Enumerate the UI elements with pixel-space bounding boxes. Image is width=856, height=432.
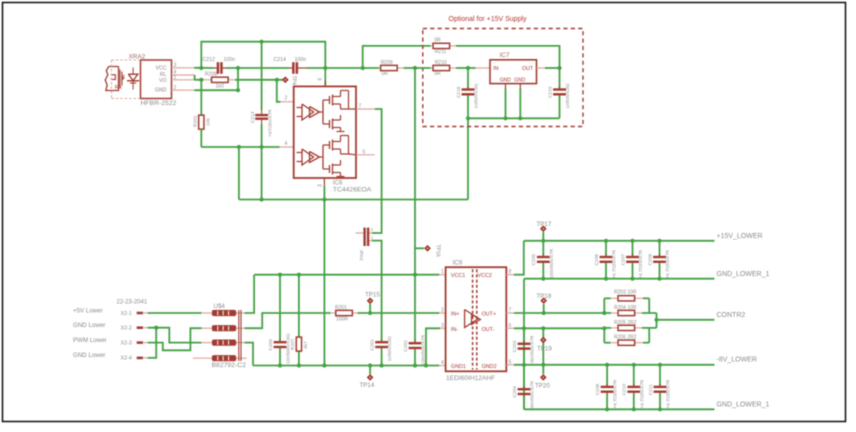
svg-text:C208: C208 <box>595 384 601 396</box>
svg-text:TP16: TP16 <box>435 245 441 258</box>
svg-text:R209: R209 <box>381 60 393 66</box>
node OUT- dots <box>522 326 607 330</box>
XRA2 pin labels VCC RL VO GND <box>155 66 167 94</box>
choke U$4 winding 2 <box>202 325 245 331</box>
svg-text:+4.7/25V/X7R: +4.7/25V/X7R <box>639 379 644 408</box>
svg-text:2: 2 <box>441 308 444 314</box>
choke U$4 name <box>214 303 226 310</box>
svg-text:TP19: TP19 <box>537 346 552 353</box>
photodiode symbol <box>127 68 139 90</box>
svg-text:3: 3 <box>441 323 444 329</box>
testpoint TP19 <box>540 337 547 344</box>
wire GND_LOWER_1 bottom rail <box>524 408 715 410</box>
resistor R204 <box>618 310 635 315</box>
wire GND to IC6 pin4 <box>201 146 279 148</box>
svg-text:-8V_LOWER: -8V_LOWER <box>717 357 757 364</box>
svg-text:4k7: 4k7 <box>303 341 309 349</box>
svg-text:TP20: TP20 <box>535 383 550 390</box>
connector pin X2-2 <box>137 326 148 329</box>
wire R203 green bits <box>604 297 649 299</box>
node C213 top tap dot <box>260 40 264 44</box>
wire X2-3 to choke w2 <box>148 328 202 350</box>
capacitor C211 <box>648 365 671 410</box>
svg-text:TP14: TP14 <box>360 382 375 389</box>
node C202 bottom dot <box>413 363 417 367</box>
capacitor C213 top lead <box>261 42 263 114</box>
node bottom GND rail dots <box>605 407 662 411</box>
TP16 label <box>435 245 441 258</box>
wire optional supply GND rail <box>468 117 560 119</box>
wire X2-2 to choke w3 <box>148 328 202 343</box>
svg-text:1EDI60IH12AHF: 1EDI60IH12AHF <box>446 375 495 382</box>
wire choke w2 to PWM row <box>245 313 331 328</box>
resistor R204 label <box>614 305 637 311</box>
jumper JPA2 label <box>358 250 364 261</box>
svg-text:C213: C213 <box>250 111 256 123</box>
svg-text:IC7: IC7 <box>500 52 510 59</box>
net label GND_LOWER_1 upper <box>717 271 770 278</box>
svg-text:+4.7/25V/X7R: +4.7/25V/X7R <box>666 379 671 408</box>
node C201 bottom dot <box>380 363 384 367</box>
jumper JPA2 pin leads <box>356 233 373 241</box>
wire GND_LOWER_1 upper rail <box>524 278 715 280</box>
IC6 pin4 lead <box>280 146 294 148</box>
svg-text:+4.7/25V/X7R: +4.7/25V/X7R <box>612 249 617 278</box>
connector pin X2-4 <box>137 357 148 360</box>
TP17 label <box>537 221 552 228</box>
svg-text:4: 4 <box>285 141 288 147</box>
svg-text:Rx: Rx <box>115 85 122 91</box>
wire GND1 rail riser to optional box <box>467 118 469 199</box>
optional supply title <box>449 16 528 23</box>
node C213 bottom dot <box>260 145 264 149</box>
svg-text:1n/50V/C0G: 1n/50V/C0G <box>387 336 392 362</box>
testpoint TP18 stub <box>543 304 545 313</box>
connector pin X2-3 labels <box>73 337 132 347</box>
svg-text:C212: C212 <box>203 57 216 63</box>
svg-text:0R: 0R <box>434 71 441 77</box>
wire isolated GND vertical <box>523 279 525 410</box>
svg-text:C210: C210 <box>622 384 628 396</box>
svg-text:OUT+: OUT+ <box>482 312 497 318</box>
node IC6 GND bottom dot <box>322 363 326 367</box>
svg-text:C214: C214 <box>274 57 287 63</box>
voltage regulator IC7 body <box>490 60 537 84</box>
connector pin X2-3 <box>137 341 148 344</box>
testpoint TP4 <box>282 76 289 83</box>
svg-text:PWM Lower: PWM Lower <box>73 337 107 344</box>
svg-text:R210: R210 <box>435 60 447 66</box>
wire R209 to R210 <box>404 67 431 69</box>
svg-text:C205: C205 <box>531 254 537 266</box>
resistor R204 leads <box>611 312 643 314</box>
resistor R209 labels <box>381 60 393 77</box>
IC9 pin name labels <box>451 273 497 370</box>
svg-text:C207: C207 <box>620 254 626 266</box>
connector pin X2-1 <box>137 312 148 315</box>
wire +15V rail <box>524 240 715 242</box>
svg-text:R206 2R2: R206 2R2 <box>614 335 637 341</box>
IC6 pin7 number <box>359 104 362 110</box>
svg-text:C202: C202 <box>403 340 409 352</box>
svg-text:TC4426EOA: TC4426EOA <box>333 187 372 194</box>
svg-text:IC9: IC9 <box>453 260 463 267</box>
IC6 pin2 number <box>285 96 288 102</box>
Rx label <box>115 85 122 91</box>
svg-text:TP17: TP17 <box>537 221 552 228</box>
node primary GND dots <box>368 363 372 367</box>
IC9 pin8 lead <box>506 274 514 276</box>
svg-text:+4.7/25V/X7R: +4.7/25V/X7R <box>665 249 670 278</box>
svg-text:U$4: U$4 <box>214 303 226 310</box>
IC7 IN pin lead <box>476 67 491 69</box>
wire ladder right bus top <box>649 298 656 313</box>
wire X2-4 up to X2-2 <box>148 328 157 358</box>
node VO junction dot <box>199 78 203 82</box>
IC9 pin8 number <box>509 269 512 275</box>
wire VCC top detour <box>201 42 325 68</box>
resistor R209 lead left <box>379 67 382 69</box>
node top-wire corner dot <box>361 66 365 70</box>
net label CONTR2 <box>717 312 746 319</box>
node +5V rail dots <box>278 273 417 277</box>
resistor R210 labels <box>434 60 447 77</box>
node GND pin2 dot <box>236 88 240 92</box>
wire GND mid segment <box>227 67 290 69</box>
svg-text:2: 2 <box>285 96 288 102</box>
IC7 OUT pin lead <box>537 67 546 69</box>
node TP4 junction dot <box>275 78 279 82</box>
wire OUT+ to ladder <box>514 312 604 314</box>
wire ladder right bus bottom <box>649 328 656 343</box>
wire IN- tie to GND <box>426 328 440 365</box>
op-amp driver IC6 body <box>294 86 356 178</box>
jumper JPA2 <box>363 228 369 246</box>
svg-text:GND: GND <box>500 77 512 83</box>
capacitor C207 <box>620 241 643 279</box>
wire primary GND rail <box>253 365 439 367</box>
svg-text:1n/50V/C0G: 1n/50V/C0G <box>565 83 570 109</box>
svg-text:1: 1 <box>441 269 444 275</box>
IC9 pin7 out number <box>509 308 512 314</box>
testpoint TP18 <box>540 297 547 304</box>
IC9 pin3 lead <box>440 327 446 329</box>
resistor R205 label <box>614 320 637 326</box>
IC9 pin1 lead <box>439 274 445 276</box>
IC9 name label <box>453 260 463 267</box>
wire X2-1 to choke <box>148 312 202 314</box>
node ladder left dots <box>602 311 606 315</box>
IC9 pin6 out lead <box>506 327 514 329</box>
svg-text:10n/500V/C0G: 10n/500V/C0G <box>286 333 291 364</box>
IC9 pin7 out lead <box>506 312 514 314</box>
light arrow glyph <box>122 75 125 81</box>
IC6 pin3 number <box>318 184 324 187</box>
svg-text:VCC: VCC <box>156 66 167 72</box>
capacitor C215 <box>547 68 570 118</box>
svg-text:10k: 10k <box>206 118 212 126</box>
svg-text:R201: R201 <box>335 305 347 311</box>
svg-text:GND: GND <box>514 77 526 83</box>
choke U$4 winding 3 <box>202 340 245 346</box>
TP20 label <box>535 383 550 390</box>
svg-text:JPA2: JPA2 <box>358 250 364 261</box>
node CONTR2 dot <box>654 318 658 322</box>
node IC6 pin6 junction dot <box>323 66 327 70</box>
svg-text:VCC2: VCC2 <box>478 273 492 279</box>
node VCC junction dot <box>199 66 203 70</box>
svg-text:X2-1: X2-1 <box>121 311 132 317</box>
svg-text:X2-3: X2-3 <box>121 340 132 346</box>
svg-text:6: 6 <box>318 78 324 81</box>
wire VCC pin3 to junction <box>194 67 213 69</box>
svg-text:100n/50V/X7R: 100n/50V/X7R <box>530 380 535 411</box>
svg-text:7: 7 <box>509 308 512 314</box>
testpoint TP14 <box>367 374 374 381</box>
resistor R211 <box>433 43 450 48</box>
IC6 pin3 lead <box>323 178 325 186</box>
resistor R206 leads <box>604 342 649 344</box>
wire choke w1 to +5V rail <box>245 275 255 313</box>
node C200 dots <box>278 363 282 367</box>
svg-text:C209: C209 <box>647 254 653 266</box>
capacitor C209 <box>647 241 670 279</box>
TP19 label <box>537 346 552 353</box>
wire JPA2 to C201 <box>372 241 382 339</box>
node GND rail dots <box>237 145 327 202</box>
svg-text:+4.7/25V/X7R: +4.7/25V/X7R <box>613 379 618 408</box>
resistor R207 <box>296 337 301 351</box>
svg-text:VCC1: VCC1 <box>451 273 465 279</box>
capacitor C202 <box>403 334 426 365</box>
svg-text:3: 3 <box>174 62 177 68</box>
wire GND riser left <box>238 147 240 200</box>
svg-text:IN+: IN+ <box>451 312 460 318</box>
connector header label <box>117 300 148 306</box>
net label GND_LOWER_1 bottom <box>717 402 770 409</box>
testpoint TP16 stub <box>415 247 424 249</box>
svg-text:Optional for +15V Supply: Optional for +15V Supply <box>449 16 528 23</box>
node R207 bottom dot <box>297 363 301 367</box>
capacitor C206 <box>594 241 617 279</box>
testpoint TP14 stub <box>369 366 371 375</box>
svg-text:100n/50V/X7R: 100n/50V/X7R <box>549 248 554 279</box>
svg-text:X2-2: X2-2 <box>121 326 132 332</box>
svg-text:R203 10R: R203 10R <box>614 290 637 296</box>
svg-text:C201: C201 <box>369 339 375 351</box>
IC6 name label <box>333 180 343 187</box>
wire R211 to OUT node <box>456 46 560 68</box>
wire IC7 GND pins down <box>506 89 521 119</box>
wire OUT to C215 <box>545 67 560 69</box>
capacitor C216 <box>456 68 479 118</box>
svg-text:IN: IN <box>493 66 498 72</box>
wire ladder left bus bottom <box>603 328 605 342</box>
resistor R207 vertical wire <box>298 275 300 366</box>
svg-text:GND: GND <box>155 87 167 93</box>
svg-text:R202: R202 <box>193 115 199 127</box>
IC9 pin3 number <box>441 323 444 329</box>
svg-text:C203: C203 <box>512 340 518 352</box>
choke U$4 value <box>212 362 247 369</box>
optional supply dashed box <box>423 29 583 127</box>
wire RL-VO tie <box>194 75 196 80</box>
svg-text:2: 2 <box>371 227 374 232</box>
capacitor C204 <box>512 365 535 411</box>
wire CONTR2 <box>657 319 715 321</box>
choke U$4 winding 1 <box>202 310 245 316</box>
testpoint TP17 <box>540 225 547 232</box>
resistor R205 <box>618 325 635 330</box>
svg-text:R211: R211 <box>435 49 447 55</box>
svg-text:TP15: TP15 <box>365 291 380 298</box>
wire R202 to GND wire <box>200 129 202 147</box>
IC9 pin6 out number <box>509 323 512 329</box>
svg-text:100n/50V/X7R: 100n/50V/X7R <box>421 334 426 365</box>
choke core lines <box>239 310 241 361</box>
fiber connector symbol <box>105 67 122 91</box>
connector pin X2-4 labels <box>73 352 132 362</box>
IC6 pin6 lead <box>324 68 326 86</box>
IC9 pin2 number <box>441 308 444 314</box>
node X2-2 junction dot <box>154 326 158 330</box>
capacitor C200 <box>268 275 291 366</box>
node IN- tie dot <box>424 363 428 367</box>
resistor R209 <box>381 65 398 70</box>
capacitor C213 labels <box>250 109 272 137</box>
node GND drop junction dot <box>236 66 240 70</box>
resistor R202 <box>199 115 204 129</box>
resistor R201 <box>336 310 353 315</box>
svg-text:VO: VO <box>159 78 167 84</box>
node +15V rail dots <box>541 239 661 243</box>
node OUT junction dot <box>557 66 561 70</box>
IC6 cell B output wire <box>349 153 357 156</box>
wire VO down <box>200 80 202 116</box>
svg-text:4: 4 <box>441 360 444 366</box>
testpoint TP15 <box>367 297 374 304</box>
svg-text:6: 6 <box>509 323 512 329</box>
wire R208 to TP4 <box>235 79 283 81</box>
IC9 pin2 lead <box>439 312 445 314</box>
wire VO to R208 <box>194 79 204 81</box>
testpoint TP17 stub <box>542 232 544 241</box>
wire R204 green bits <box>604 312 649 314</box>
wire GND riser C213 column <box>261 147 263 200</box>
IC9 buffer triangle <box>465 310 481 328</box>
resistor R210 leads <box>431 67 456 69</box>
TP18 label <box>537 293 552 300</box>
svg-text:+5V Lower: +5V Lower <box>73 307 103 314</box>
capacitor C208 <box>595 365 618 410</box>
wire R209 segment <box>396 67 403 69</box>
capacitor C213 <box>255 114 268 147</box>
svg-text:1k0: 1k0 <box>216 83 224 89</box>
svg-text:100n/50V/X7R: 100n/50V/X7R <box>530 335 535 366</box>
wire R206 green bits <box>604 342 649 344</box>
resistor R203 leads <box>604 297 649 299</box>
svg-text:HFBR-2522: HFBR-2522 <box>141 100 177 107</box>
svg-text:C206: C206 <box>594 254 600 266</box>
svg-text:C215: C215 <box>547 86 553 98</box>
XRA2 pin leads <box>172 68 195 90</box>
svg-text:100R: 100R <box>336 317 348 323</box>
resistor R202 labels <box>193 115 212 127</box>
resistor R206 label <box>614 335 637 341</box>
jumper pin numbers <box>371 227 374 240</box>
wire ladder common <box>656 313 658 328</box>
svg-text:0R: 0R <box>434 37 441 43</box>
svg-text:1n/50V/C0G: 1n/50V/C0G <box>474 83 479 109</box>
wire VCC2 riser <box>514 241 524 275</box>
capacitor C214 lead <box>289 67 306 69</box>
node upper GND rail dots <box>541 277 661 281</box>
resistor R203 <box>618 296 635 301</box>
capacitor C214 <box>292 62 298 74</box>
IC7 GND pin leads <box>506 84 521 89</box>
wire ladder left bus top <box>603 298 605 313</box>
IC6 pin5 number <box>363 149 366 155</box>
optical RX module XRA2 body <box>141 60 172 99</box>
svg-text:100n: 100n <box>224 57 236 63</box>
capacitor C212 lead <box>213 67 227 69</box>
wire VCC right rail <box>306 67 379 69</box>
IC6 pin6 number <box>318 78 324 81</box>
IC9 pin4 number <box>441 360 444 366</box>
svg-text:OUT-: OUT- <box>482 327 495 333</box>
svg-text:3: 3 <box>318 184 324 187</box>
node TP15 junction dot <box>368 311 372 315</box>
wire R205 green bits <box>604 327 649 329</box>
resistor R201 labels <box>335 305 348 323</box>
net label -8V_LOWER <box>717 357 757 364</box>
IC9 value label <box>446 375 495 382</box>
node TP18 dot <box>542 311 546 315</box>
svg-text:1: 1 <box>174 74 177 80</box>
IC6 cell A output wire <box>349 108 357 110</box>
IC6 pin2 lead <box>280 101 293 103</box>
IC9 pin1 number <box>441 269 444 275</box>
svg-text:GND Lower: GND Lower <box>73 352 105 359</box>
net label +15V_LOWER <box>717 233 763 240</box>
IC9 pin5 number <box>509 359 512 365</box>
wire OUTA from pin7 <box>372 109 382 233</box>
svg-text:GND1: GND1 <box>451 364 466 370</box>
svg-text:OUT: OUT <box>522 66 534 72</box>
capacitor C205 <box>531 241 554 279</box>
svg-text:C200: C200 <box>268 339 274 351</box>
svg-text:2: 2 <box>174 85 177 91</box>
node -8V rail dots <box>522 363 662 367</box>
wire +5V rail <box>254 274 439 276</box>
wire GND drop to pin2 <box>194 68 238 90</box>
svg-text:IN-: IN- <box>451 327 458 333</box>
resistor R211 labels <box>434 37 446 55</box>
wire to IC6 pin2 <box>277 80 281 102</box>
svg-text:C216: C216 <box>456 86 462 98</box>
TP15 label <box>365 291 380 298</box>
XRA2 pin numbers 3 4 1 2 <box>174 62 177 91</box>
capacitor C201 <box>369 336 392 366</box>
TP4 label <box>291 76 297 86</box>
gate driver IC9 body <box>446 267 507 371</box>
IC7 pin labels <box>493 66 534 83</box>
testpoint TP20 stub <box>542 365 544 374</box>
svg-text:22-23-2041: 22-23-2041 <box>117 300 148 306</box>
resistor R208 <box>212 77 229 82</box>
resistor R207 labels <box>290 338 309 350</box>
wire R210 to IC7 IN <box>456 67 476 69</box>
